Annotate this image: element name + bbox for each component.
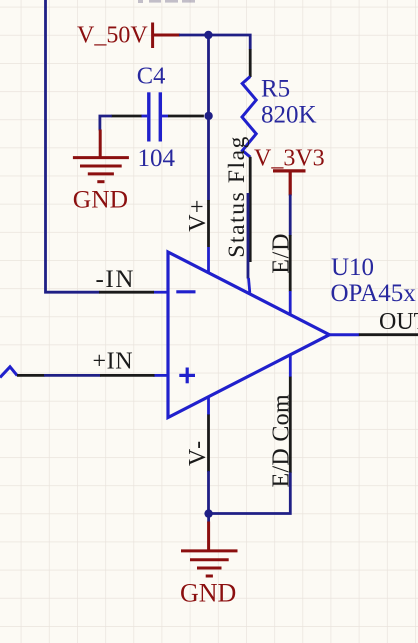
wire V_3V3 to E/D pin [289,195,292,237]
power port V_3V3 [254,146,325,196]
svg-text:V_50V: V_50V [77,23,148,49]
input resistor stub cut at left edge [0,367,17,378]
svg-text:GND: GND [73,185,128,214]
power port V_50V [77,23,180,49]
svg-text:V_3V3: V_3V3 [254,146,325,172]
junction top [204,31,212,39]
wire junction down to C4 junction [207,35,210,116]
svg-text:U10: U10 [331,254,374,281]
resistor R5 [242,49,317,262]
wire V_50V to R5 corner [179,35,250,50]
wire OUT black segment [359,333,418,336]
svg-text:OUT: OUT [379,309,418,335]
pin V- [185,397,211,472]
pin V+ [185,199,211,273]
pin E/D [268,233,294,314]
svg-text:OPA45x: OPA45x [331,280,417,307]
op-amp U10 triangle [154,252,417,418]
wire -IN black segment [99,291,154,294]
svg-text:820K: 820K [261,102,317,129]
svg-text:+IN: +IN [93,349,134,375]
ground GND1 [73,130,129,214]
wire C4 junction down to V+ pin [207,116,210,201]
output wire from op-amp [329,333,359,336]
wire junction to GND2 [207,514,210,523]
pin of stub resistor [17,374,45,377]
junction at C4 [204,112,212,120]
svg-text:E/D: E/D [268,233,294,274]
wire R5 to Status Flag pin [247,193,250,279]
svg-text:Status Flag: Status Flag [224,135,250,258]
ground GND2 [180,522,238,608]
wire E/D Com down and left to junction [209,473,291,514]
wire C4 left to GND1 [100,116,112,131]
junction bottom [204,509,212,517]
svg-text:104: 104 [138,145,176,172]
svg-text:R5: R5 [261,76,290,103]
wire left rail [46,0,100,292]
cropped text remnant at top edge [138,0,195,3]
svg-text:V-: V- [185,439,211,466]
wire +IN blue [44,374,101,377]
svg-text:-IN: -IN [96,266,136,293]
svg-text:GND: GND [180,579,236,608]
wire V- to junction [207,471,210,514]
svg-text:V+: V+ [185,199,211,232]
svg-text:C4: C4 [137,63,166,90]
capacitor C4 [111,63,204,173]
wire +IN black segment [100,374,155,377]
pin Status Flag [224,135,250,293]
pin E/D Com [268,356,294,488]
